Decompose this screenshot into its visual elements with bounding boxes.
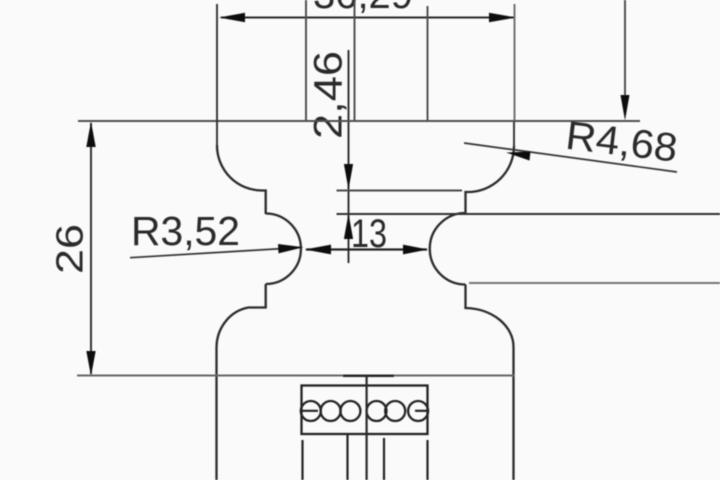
profile right edge top vertical — [513, 122, 515, 146]
arrow left of 36,29 — [219, 13, 245, 22]
spring housing rectangle — [302, 386, 428, 435]
spring coil circle 4 — [367, 401, 387, 421]
tenon bottom line y=283 — [469, 282, 720, 284]
bottom face dark overlap segment — [343, 375, 394, 377]
profile left lower neck wall and fillet — [216, 284, 265, 480]
spring end tick left — [302, 410, 319, 412]
arrow up tip y=122 — [86, 122, 95, 148]
profile left bump (R3,52 bead) — [266, 214, 301, 285]
profile top-right fillet (R4,68) — [466, 146, 515, 213]
leader line R3,52 — [130, 247, 302, 257]
extension line x=354.5 — [354, 0, 356, 121]
bore line right x=384 — [383, 438, 385, 480]
extension line x=427.5 — [427, 6, 429, 121]
svg-text:26: 26 — [50, 224, 92, 274]
spring end tick right — [415, 410, 428, 412]
profile right lower neck wall and fillet — [466, 285, 514, 480]
leader arrow R3,52 — [278, 244, 304, 253]
spring coil circle 6 — [408, 401, 428, 421]
svg-text:36,29: 36,29 — [313, 0, 413, 17]
dimension line 13 — [306, 248, 427, 250]
spring coil circle 3 — [340, 401, 360, 421]
svg-text:13: 13 — [351, 212, 387, 256]
shank centerline x=366.6 — [366, 376, 368, 480]
svg-text:R3,52: R3,52 — [131, 208, 240, 254]
arrow right tip — [403, 245, 428, 255]
spring coil circle 5 — [385, 401, 405, 421]
cut-off dimension line with down arrow at x=625 — [624, 0, 626, 98]
spring coil circle 1 — [301, 401, 321, 421]
profile left edge top vertical — [216, 4, 218, 145]
arrow down tip y=188.5 — [344, 164, 353, 190]
svg-text:2,46: 2,46 — [307, 51, 351, 139]
leader arrow R4,68 — [506, 152, 531, 161]
bore line left x=347.5 — [346, 435, 348, 480]
top face line y=121 — [78, 120, 640, 122]
arrow down tip y=375.5 — [86, 351, 95, 376]
shank wall right x=427.5 — [426, 440, 428, 480]
spring coil circle 2 — [321, 401, 341, 421]
leader line R4,68 — [464, 143, 677, 172]
arrow left tip — [305, 245, 331, 255]
neck top line y=190.5 — [337, 190, 463, 192]
extension line x=514.5 top — [514, 4, 516, 122]
bottom face line y=375.5 — [77, 375, 514, 377]
tenon top line y=214 — [337, 213, 720, 215]
extension line x=306 — [305, 0, 307, 121]
profile right bump — [430, 213, 466, 285]
dimension line 36,29 — [221, 17, 514, 19]
arrow right of 36,29 — [489, 13, 516, 22]
dimension line 2,46 / 13 vertical — [348, 50, 350, 263]
dimension 26 vertical line — [90, 123, 92, 374]
arrow up tip y=213.5 — [344, 214, 353, 240]
profile top-left fillet — [217, 145, 266, 214]
shank wall left x=302.5 — [301, 440, 303, 480]
